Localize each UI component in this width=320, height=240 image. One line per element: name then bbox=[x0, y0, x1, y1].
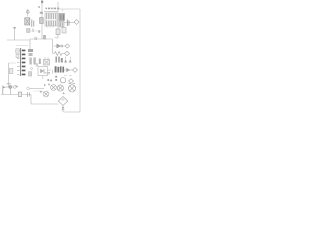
resistor R1 on x42 bbox=[40, 18, 44, 24]
junction marks right of U4 bbox=[45, 72, 48, 74]
label +2 near L2 bbox=[47, 79, 52, 81]
wire horizontal y94.5 bbox=[1, 94, 31, 96]
wire faint to lamp L1 bbox=[33, 90, 43, 92]
fuse F2 on wire bbox=[18, 92, 21, 97]
resistor R3 blob bbox=[43, 35, 46, 40]
capacitor C8 polarized bbox=[26, 10, 29, 13]
wire down from U4 bbox=[42, 76, 44, 80]
diode D6 bbox=[9, 85, 11, 88]
bridge BR1 diamond bbox=[58, 97, 68, 106]
node marks above x52 corner bbox=[55, 37, 58, 39]
wire top-right horizontal y9 bbox=[58, 8, 80, 10]
wire horizontal y88.5 bbox=[29, 88, 44, 90]
marks above L4 bbox=[69, 83, 76, 85]
resistor R5 pair bbox=[29, 58, 35, 65]
dark text cluster 465 bbox=[55, 66, 65, 72]
node blob B1 bbox=[27, 29, 31, 33]
wire top vertical net V1 bbox=[41, 3, 43, 39]
pin stub on y9 wire bbox=[62, 9, 64, 12]
diode D5 at connector bottom bbox=[16, 85, 30, 89]
dashes above bbox=[64, 75, 72, 77]
label text above U1 bbox=[38, 6, 59, 9]
crystal Y1 bbox=[44, 57, 50, 65]
wire below diamond bbox=[62, 106, 64, 113]
lamp L2 bbox=[51, 85, 57, 91]
small box U3 bbox=[62, 28, 66, 34]
wire horizontal main y40 bbox=[7, 39, 52, 40]
lamp L1 bbox=[43, 91, 49, 97]
lamp L3 bbox=[57, 85, 63, 91]
component cluster A bbox=[25, 18, 30, 25]
wire horizontal y45.5 faint bbox=[16, 45, 28, 47]
node top power flag bbox=[41, 1, 43, 4]
wire horizontal y31 bbox=[26, 30, 41, 32]
resistor R6 small bar bbox=[39, 59, 41, 65]
node speck near L2 bbox=[44, 84, 46, 86]
junction tick bbox=[51, 70, 53, 74]
capacitor C3 tick bbox=[32, 29, 34, 33]
wire vertical x58 bbox=[57, 2, 59, 38]
op-amp U1 IC block bbox=[45, 13, 57, 26]
wire vertical x14.5 bbox=[14, 29, 16, 41]
wire horizontal y63 left bbox=[9, 62, 17, 64]
capacitor C4 bbox=[67, 20, 69, 27]
component box F1 bbox=[9, 69, 13, 74]
wire vertical x30 drop bbox=[29, 39, 31, 49]
lamp L4 bbox=[68, 85, 75, 92]
connector out D1 diamond bbox=[74, 20, 79, 25]
terminal circle 2 bbox=[9, 86, 12, 89]
capacitor C2 bbox=[32, 20, 34, 28]
terminal circle bbox=[13, 86, 16, 89]
capacitor C6 polarized stack bbox=[28, 49, 33, 56]
connector D4 diamond bbox=[65, 51, 70, 55]
wire vertical x8.5 bbox=[8, 63, 10, 87]
node speck under R1 bbox=[38, 30, 40, 33]
wire horizontal y11.5 bbox=[44, 11, 58, 13]
wire right border x80 bbox=[79, 9, 81, 112]
connector D9 diamond bbox=[69, 79, 74, 83]
node T bar bbox=[7, 83, 11, 85]
label J18 text blobs bbox=[56, 57, 63, 63]
transistor Q1 circle bbox=[60, 78, 65, 83]
wire bottom-right y112 bbox=[64, 111, 81, 113]
node terminal T1 bbox=[13, 27, 16, 29]
wire y71 from U4 bbox=[48, 70, 52, 73]
relay K1 lower box bbox=[59, 22, 64, 28]
wire corner x31 down to y104 bbox=[31, 95, 59, 105]
node plus mark between lamps bbox=[63, 92, 65, 94]
background bbox=[0, 0, 84, 120]
relay K1 dark box right of x58 bbox=[59, 14, 65, 21]
wire y22.5 to diamond bbox=[64, 22, 74, 24]
optocoupler U4 box with diode bbox=[38, 67, 48, 76]
marks in diamond bbox=[62, 98, 65, 101]
capacitor C1 tick bbox=[40, 12, 43, 14]
connector J1 strip bbox=[17, 48, 25, 76]
connector D3 diamond bbox=[65, 44, 70, 48]
diode D10 bbox=[62, 107, 65, 110]
label +2 bbox=[55, 76, 57, 81]
node mark small bbox=[31, 68, 33, 70]
capacitor C5 tick bbox=[35, 37, 37, 41]
wire vertical x52 bbox=[52, 39, 54, 53]
switch S1 flag bbox=[3, 86, 6, 95]
transistor arrows up bbox=[64, 57, 71, 63]
connector D8 diamond bbox=[73, 68, 78, 73]
diode D7 arrow right bbox=[64, 68, 73, 72]
component marks bbox=[28, 92, 30, 97]
plus mark bbox=[40, 91, 42, 93]
capacitor C7 ticks bbox=[36, 63, 37, 67]
wire horizontal y87 bbox=[6, 86, 14, 88]
node blob 8 bbox=[28, 72, 31, 77]
small box U2 bbox=[56, 29, 60, 35]
component cluster left of J1 bbox=[16, 49, 19, 53]
resistor R4 zigzag row bbox=[53, 52, 65, 56]
plus mark bbox=[48, 84, 50, 86]
pin stubs under U1 bbox=[47, 26, 53, 28]
diode D2 row bbox=[54, 44, 66, 48]
